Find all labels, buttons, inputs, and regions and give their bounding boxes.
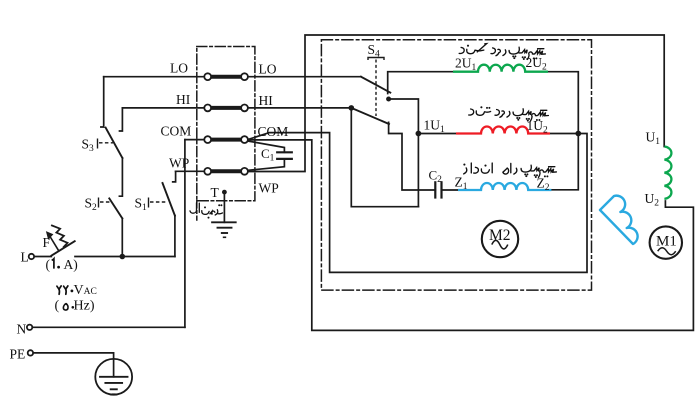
- Persian digits 10: [52, 259, 54, 269]
- svg-text:Hz): Hz): [74, 299, 95, 314]
- node L-S2 junction: [120, 254, 126, 260]
- svg-text:COM: COM: [258, 124, 289, 139]
- pump coil icon (blue): [600, 196, 638, 244]
- svg-text:LO: LO: [170, 61, 188, 76]
- start winding Z1-Z2 (blue): [458, 183, 551, 190]
- svg-text:L: L: [21, 250, 29, 265]
- Persian word: sim pich dor tond (fast winding label): [469, 109, 549, 121]
- S4 linkage bracket: [98, 58, 385, 208]
- motor M1 icon: [650, 226, 682, 258]
- node N supply: [27, 325, 32, 330]
- svg-text:M1: M1: [656, 234, 677, 250]
- terminal circles and bars: [27, 73, 248, 355]
- svg-text:HI: HI: [176, 92, 191, 107]
- S4 pivot2 loop to 1U1 junction: [351, 108, 418, 207]
- fast winding 1U1-1U2 (red): [456, 127, 550, 134]
- svg-text:M2: M2: [489, 227, 511, 244]
- wire C2 to Z1: [442, 189, 459, 191]
- switch S3 blade: [106, 128, 123, 158]
- breaker F arrow: [46, 231, 59, 250]
- Persian word: terminal (under T): [190, 203, 223, 215]
- node L supply: [29, 254, 34, 259]
- wire LO right to S4: [248, 76, 361, 78]
- wire HI right to S4: [248, 107, 351, 109]
- svg-text:(: (: [55, 299, 60, 314]
- node T terminal dot: [222, 190, 227, 195]
- switch S3 fixed lead HI side: [120, 108, 123, 131]
- switch S4 blade 2: [351, 108, 389, 124]
- node PE supply: [28, 350, 33, 355]
- switch S2 blade: [109, 198, 122, 218]
- Persian digits 50: [63, 303, 68, 310]
- capacitor C2 plates: [434, 182, 436, 197]
- switch S4 blade 1: [361, 77, 390, 93]
- wire COM fan-out a (to windings common): [248, 133, 587, 273]
- switch S1 blade: [163, 183, 175, 216]
- wire COM to N descent: [184, 140, 186, 328]
- M1 winding U1-U2 (green vertical coil): [664, 147, 671, 199]
- switch S1 fixed lead from WP: [173, 171, 176, 182]
- wire HI left: [122, 107, 204, 109]
- wire WP right (e): [248, 35, 664, 172]
- slow winding 2U1-2U2 (green): [453, 65, 548, 72]
- S4 fixed contact lead to slow winding: [388, 72, 453, 94]
- node S4 pivot2: [349, 105, 355, 111]
- svg-text:COM: COM: [161, 124, 192, 139]
- capacitor C1 plates: [277, 151, 292, 153]
- switch S1 bottom lead: [174, 216, 176, 257]
- svg-text:PE: PE: [10, 347, 26, 362]
- S3 linkage dashes: [97, 139, 99, 149]
- wire 1U2 to bus: [550, 133, 578, 135]
- terminal LO: [211, 75, 241, 79]
- svg-text:HI: HI: [259, 93, 274, 108]
- PE earth circle symbol: [95, 359, 132, 395]
- node windings common: [575, 131, 581, 137]
- Persian digits 220: [57, 286, 68, 294]
- svg-text:F: F: [43, 235, 51, 250]
- switch S2 bottom lead: [121, 218, 123, 256]
- wire L line: [34, 256, 51, 258]
- svg-text:WP: WP: [259, 181, 279, 196]
- windings right common bus: [548, 72, 578, 190]
- S1 linkage dashes: [148, 198, 150, 208]
- labels: terminal block left: [161, 61, 289, 196]
- node 1U1 junction: [416, 131, 422, 137]
- S4 alternate contact wire: [389, 99, 419, 207]
- motor M2 icon: [482, 221, 518, 257]
- S2 linkage dashes: [98, 198, 100, 208]
- terminal block box left-edge extension: [196, 201, 198, 220]
- node S4 alternate contact: [386, 97, 391, 102]
- svg-text:(: (: [46, 257, 51, 272]
- svg-text:A): A): [64, 257, 78, 272]
- Persian word: sim pich dor kond (slow winding label): [459, 44, 545, 60]
- wire COM left: [185, 139, 205, 141]
- wire PE line: [33, 353, 114, 377]
- wire N line: [32, 326, 185, 328]
- svg-text:N: N: [17, 322, 27, 337]
- wire WP left: [176, 170, 205, 172]
- wire junction to 1U1: [418, 133, 456, 135]
- terminal WP: [211, 169, 241, 173]
- T terminal wire and ground: [223, 192, 225, 222]
- svg-text:LO: LO: [259, 62, 277, 77]
- capacitor C1 leads from COM and WP: [248, 141, 285, 152]
- breaker F thermal zigzag: [52, 226, 68, 247]
- switch S2 fixed lead (from S3 pivot): [119, 158, 122, 196]
- wire COM fan-out c (to M1 return): [248, 140, 694, 331]
- terminal COM: [211, 138, 241, 142]
- wire LO left: [104, 76, 205, 78]
- svg-text:WP: WP: [169, 156, 189, 171]
- fuse-breaker F blade: [52, 241, 75, 255]
- enclosure dash-dot box: [321, 40, 591, 290]
- terminal block dash-dot box: [197, 47, 255, 201]
- svg-text:T: T: [211, 185, 220, 200]
- terminal HI: [211, 106, 241, 110]
- Persian word: sim pich rah andaz (start winding label): [464, 163, 557, 177]
- switch S3 fixed lead LO side: [101, 77, 104, 127]
- S4 blade2 fixed lead to C2: [389, 122, 436, 190]
